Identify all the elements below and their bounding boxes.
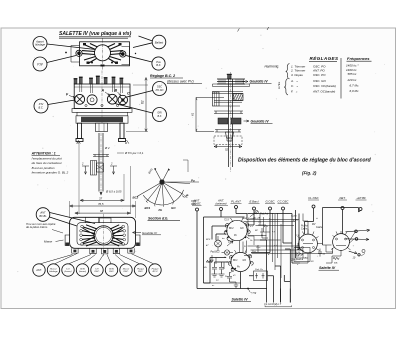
stray marks bbox=[238, 27, 269, 32]
tick B bbox=[77, 140, 81, 145]
svg-text:4LL 25: 4LL 25 bbox=[253, 217, 261, 220]
balloon OSC PO GO bbox=[153, 82, 167, 96]
label 1000 bbox=[228, 242, 234, 244]
shaft centre section bbox=[99, 133, 103, 196]
balloon Ballast bbox=[152, 35, 166, 49]
coil T2 terminal dots bbox=[230, 256, 252, 269]
wire left riser bbox=[204, 217, 211, 283]
res R2 bbox=[333, 257, 339, 264]
label Cadre bbox=[293, 219, 298, 222]
wire E.Barcl down bbox=[248, 210, 254, 225]
leader P IV to eyelet bbox=[47, 56, 76, 63]
top screw bbox=[227, 74, 232, 79]
svg-text:(dessus avec PV): (dessus avec PV) bbox=[167, 80, 194, 84]
coil T1 bbox=[224, 218, 250, 241]
bottom view inner shell bbox=[77, 223, 128, 245]
selector arc bbox=[143, 190, 183, 205]
svg-text:Goulotte IV: Goulotte IV bbox=[250, 80, 269, 84]
wire mid verticals bbox=[292, 210, 299, 263]
chassis flange bbox=[72, 109, 132, 116]
wire crosslinks bbox=[248, 220, 270, 245]
right lug column bbox=[122, 225, 126, 245]
svg-text:G.OSC: G.OSC bbox=[265, 200, 275, 204]
svg-text:(trame): (trame) bbox=[64, 270, 71, 273]
table row 2 bbox=[290, 68, 357, 73]
balloon ANT BC BL bbox=[36, 208, 50, 222]
wire tap down 1 bbox=[267, 289, 291, 303]
right eyelet bbox=[120, 51, 126, 57]
svg-text:A. »: A. » bbox=[290, 79, 298, 83]
svg-text:52: 52 bbox=[225, 148, 229, 152]
svg-text:OSC.: OSC. bbox=[138, 271, 144, 273]
label 6.5 mm bbox=[105, 190, 122, 194]
capacitor C2 bbox=[219, 262, 225, 277]
net mark 4L bbox=[186, 193, 189, 197]
brace trimmers bbox=[286, 64, 290, 79]
svg-text:OSC.: OSC. bbox=[109, 271, 115, 273]
resistor R3 bbox=[207, 260, 213, 262]
svg-text:Cadre: Cadre bbox=[316, 227, 323, 229]
plate centerlines bbox=[102, 39, 104, 71]
note trou bbox=[26, 222, 56, 229]
svg-text:Ø 2: Ø 2 bbox=[104, 146, 110, 150]
svg-text:68: 68 bbox=[100, 209, 104, 213]
wire padder bbox=[249, 276, 274, 289]
svg-text:61: 61 bbox=[191, 112, 195, 116]
svg-text:SALETTE IV (vue plaque à vis): SALETTE IV (vue plaque à vis) bbox=[59, 31, 132, 37]
svg-text:Ballast: Ballast bbox=[155, 40, 164, 44]
leader ANT BC BL bbox=[50, 213, 96, 227]
coil winding hatched bbox=[233, 94, 243, 101]
svg-text:OSC. OC(bande): OSC. OC(bande) bbox=[313, 84, 336, 88]
leader ballast to plate bbox=[133, 43, 152, 48]
left lug column bbox=[80, 225, 84, 245]
label section db bbox=[148, 217, 181, 221]
trimmer arrow T2a bbox=[230, 268, 236, 273]
wire bus y217 bbox=[204, 216, 245, 218]
scribble labels zone B bbox=[244, 218, 271, 256]
terminal +HT BF bbox=[356, 196, 367, 211]
trimmer A bbox=[101, 89, 118, 105]
dim 62 vertical bbox=[126, 78, 148, 132]
wire G.OSC down bbox=[251, 210, 270, 253]
terminal strip labels bbox=[264, 303, 282, 306]
svg-text:37: 37 bbox=[99, 196, 103, 200]
trimmer pot bbox=[226, 132, 234, 141]
fan labels bbox=[133, 167, 197, 212]
svg-text:BC2: BC2 bbox=[229, 228, 234, 230]
svg-text:BC: BC bbox=[255, 230, 258, 232]
fan wires right bbox=[108, 44, 124, 64]
svg-text:220 kc: 220 kc bbox=[347, 78, 357, 82]
right leg bbox=[119, 123, 126, 141]
wire T1 left taps bbox=[212, 226, 227, 240]
extra marks W1 bbox=[298, 229, 319, 238]
svg-text:Pu: Pu bbox=[191, 179, 195, 183]
wire risers mid bbox=[260, 240, 290, 303]
lines under coil bbox=[214, 101, 242, 107]
clamp bracket bbox=[91, 161, 104, 176]
wire bottom bus bbox=[197, 288, 267, 290]
table row 5 bbox=[291, 84, 359, 89]
left leg bbox=[76, 123, 83, 141]
dim 37 bbox=[80, 196, 124, 201]
svg-text:50t: 50t bbox=[204, 266, 207, 269]
svg-text:GO: GO bbox=[243, 260, 247, 262]
label 72.5 bbox=[224, 219, 229, 222]
vertical bus mid bbox=[273, 213, 282, 278]
label a l'Es rotated bbox=[277, 81, 281, 89]
collar plate bbox=[93, 155, 109, 157]
fig number bbox=[302, 171, 317, 176]
trimmer pad ant bbox=[250, 211, 269, 221]
label Po coil bbox=[234, 235, 238, 237]
base plate bbox=[215, 130, 241, 133]
svg-text:ANT.: ANT. bbox=[35, 269, 42, 272]
mid plate bbox=[212, 92, 243, 94]
svg-text:Fréquences: Fréquences bbox=[347, 56, 370, 61]
svg-text:Disposition des éléments de ré: Disposition des éléments de réglage du b… bbox=[238, 158, 372, 164]
terminal balloons row bbox=[33, 264, 161, 276]
trimmer C bbox=[115, 89, 131, 105]
svg-text:OSC. GO: OSC. GO bbox=[313, 79, 327, 83]
padder box bbox=[254, 269, 268, 281]
label GO coil bbox=[240, 228, 244, 230]
long link wires bbox=[204, 226, 333, 284]
table row 4 bbox=[290, 78, 357, 83]
title SALETTE IV (vue plaque a vis) bbox=[59, 31, 132, 38]
shaft bbox=[229, 79, 233, 167]
table row 6 bbox=[291, 89, 359, 94]
pointer line top bbox=[154, 168, 170, 170]
fan wires left bbox=[82, 44, 98, 64]
table header REGLAGES bbox=[309, 54, 339, 61]
label d2 bbox=[104, 146, 110, 150]
svg-text:CC.OSC: CC.OSC bbox=[278, 200, 290, 204]
wire bus to wafer bbox=[248, 214, 301, 264]
svg-text:Ant.t: Ant.t bbox=[295, 255, 301, 258]
tiny value labels bbox=[204, 262, 236, 283]
wire mesh B bbox=[244, 228, 281, 256]
goulotte label 1 bbox=[243, 80, 272, 84]
goulotte pointer bbox=[133, 231, 162, 235]
terminal DET bbox=[338, 196, 347, 210]
label Pu Ant bbox=[301, 225, 308, 231]
wafer W2 bbox=[331, 232, 351, 251]
svg-text:OSC.: OSC. bbox=[94, 271, 100, 273]
svg-text:6,9 Mc: 6,9 Mc bbox=[350, 89, 360, 93]
svg-text:B: B bbox=[77, 141, 79, 145]
chassis dark channel bbox=[76, 116, 128, 123]
svg-text:blindage: blindage bbox=[49, 271, 58, 273]
svg-text:+HT.BF: +HT.BF bbox=[356, 196, 366, 200]
balloon P IV bbox=[33, 57, 47, 71]
leader masse bbox=[56, 240, 64, 242]
svg-text:B.F.: B.F. bbox=[157, 115, 161, 118]
svg-text:1C: 1C bbox=[216, 280, 219, 282]
svg-text:3. Noyau: 3. Noyau bbox=[291, 73, 303, 77]
svg-text:DET.: DET. bbox=[339, 196, 345, 200]
wafer W1 bbox=[297, 232, 320, 253]
terminal CL.OSC bbox=[308, 196, 320, 208]
svg-text:GmB.A: GmB.A bbox=[296, 258, 304, 261]
fan wires right bbox=[110, 225, 123, 246]
svg-text:Po.t: Po.t bbox=[252, 250, 256, 253]
svg-text:B.F.: B.F. bbox=[156, 63, 161, 67]
balloon Pos BF bbox=[152, 57, 165, 70]
label osc sections bbox=[233, 260, 246, 269]
svg-text:Réglage B.C. 2: Réglage B.C. 2 bbox=[150, 74, 175, 78]
wire HT rail bbox=[323, 208, 361, 246]
svg-text:6,7 Mc: 6,7 Mc bbox=[350, 84, 360, 88]
note masse bbox=[44, 240, 53, 244]
capacitor C1 bbox=[212, 262, 218, 277]
cap C4 bbox=[296, 243, 300, 250]
svg-text:BC1: BC1 bbox=[233, 260, 238, 262]
balloon texts bbox=[35, 268, 159, 273]
wire DET drop bbox=[342, 210, 344, 234]
extra marks W2 bbox=[333, 231, 342, 237]
svg-text:fermeture grandes O. BL 2: fermeture grandes O. BL 2 bbox=[32, 171, 69, 175]
wire det coil link bbox=[326, 250, 341, 263]
selector rays bbox=[137, 170, 199, 204]
shaft centerline bbox=[230, 72, 232, 172]
wire wafer1 links bbox=[300, 244, 323, 264]
svg-text:GO: GO bbox=[171, 206, 176, 210]
ground sym G1 bbox=[234, 282, 238, 288]
arc ticks bbox=[146, 196, 184, 207]
terminal G.OSC bbox=[265, 200, 275, 211]
svg-text:BC1: BC1 bbox=[145, 206, 151, 210]
dim 61 vertical bbox=[191, 98, 225, 132]
svg-text:(trame): (trame) bbox=[79, 270, 86, 273]
leader Grille BF bbox=[115, 104, 153, 114]
bottom view centerline bbox=[103, 214, 105, 256]
table header Frequences bbox=[347, 56, 372, 61]
leader title to balloon Ballast bbox=[139, 36, 153, 41]
horizontal pair mid bbox=[244, 220, 300, 222]
svg-text:76,5: 76,5 bbox=[98, 202, 104, 206]
label Pad OSC bbox=[211, 252, 221, 254]
coil L2 bbox=[224, 250, 229, 255]
lower plate bbox=[214, 111, 243, 114]
balloon P IV BC bbox=[34, 99, 48, 113]
svg-text:Salette IV: Salette IV bbox=[319, 266, 336, 270]
svg-text:BC2: BC2 bbox=[133, 196, 139, 200]
svg-text:GO·BC: GO·BC bbox=[192, 202, 201, 206]
svg-text:Section d.b.: Section d.b. bbox=[148, 217, 168, 221]
svg-text:585 kc: 585 kc bbox=[348, 72, 357, 76]
left T dim bbox=[81, 162, 89, 175]
riser pair mid bbox=[260, 214, 264, 233]
dark block left bbox=[218, 118, 228, 124]
goulotte label 2 bbox=[244, 119, 273, 123]
tick D right bbox=[125, 140, 129, 145]
leader lines to feet bbox=[40, 254, 154, 265]
svg-text:Pad.Ant: Pad.Ant bbox=[260, 213, 269, 216]
wire caps top bbox=[210, 258, 228, 284]
wire T2 bottom bbox=[240, 272, 242, 289]
svg-text:GO: GO bbox=[240, 228, 244, 230]
label harmoniques bbox=[265, 65, 280, 69]
svg-text:Masse: Masse bbox=[44, 240, 53, 244]
label Salette IV left bbox=[231, 298, 251, 302]
svg-text:m.: m. bbox=[212, 285, 215, 287]
padder unit box bbox=[294, 248, 310, 262]
svg-text:C: C bbox=[127, 92, 130, 96]
svg-text:Gr: Gr bbox=[224, 257, 227, 259]
gang shaft risers bbox=[240, 241, 247, 254]
fan wires left bbox=[82, 225, 97, 246]
svg-text:P.IV: P.IV bbox=[37, 62, 43, 66]
label Exc bbox=[243, 217, 248, 220]
scribble labels zone A bbox=[206, 237, 228, 287]
balloon apport blindage bbox=[33, 37, 47, 51]
svg-text:Ø 6,5 ± 0,05: Ø 6,5 ± 0,05 bbox=[105, 190, 122, 194]
svg-text:BC.2: BC.2 bbox=[153, 271, 159, 273]
svg-text:Gr: Gr bbox=[250, 240, 253, 242]
svg-text:Po: Po bbox=[159, 208, 163, 212]
wire CL.OSC drop bbox=[305, 208, 314, 234]
dim 56.5 bbox=[70, 202, 136, 207]
wire stub links bbox=[206, 253, 233, 270]
svg-text:de la pièce interm.: de la pièce interm. bbox=[26, 225, 48, 229]
svg-text:à l'Es: à l'Es bbox=[277, 81, 281, 89]
selector hub bbox=[159, 179, 164, 184]
svg-text:B.C.: B.C. bbox=[38, 105, 43, 109]
label BC2 coil bbox=[229, 228, 234, 230]
rotor circle bbox=[94, 226, 113, 245]
svg-text:B est en position: B est en position bbox=[32, 166, 55, 170]
svg-text:tm: tm bbox=[222, 237, 225, 240]
balloon Grille BF bbox=[153, 108, 167, 122]
wire antenne down bbox=[220, 211, 222, 218]
svg-text:Harmoniq.: Harmoniq. bbox=[265, 65, 280, 69]
extension lines bbox=[70, 142, 136, 218]
top flange bbox=[213, 79, 250, 87]
svg-text:B: B bbox=[115, 89, 118, 93]
terminal CC.OSC bbox=[278, 200, 290, 211]
svg-text:72.5: 72.5 bbox=[224, 219, 229, 222]
capacitor C5 bbox=[227, 272, 236, 282]
table divider bbox=[340, 58, 342, 99]
padding coil L1 bbox=[215, 236, 222, 251]
stray dot bbox=[65, 52, 136, 55]
center boss bbox=[96, 123, 108, 131]
paper speckle bbox=[17, 33, 385, 295]
svg-text:MV: MV bbox=[312, 224, 316, 226]
label 8/5mm bbox=[117, 151, 144, 155]
trimmer F bbox=[66, 93, 85, 105]
svg-text:ANT. OC(bande): ANT. OC(bande) bbox=[312, 90, 335, 94]
svg-text:PL.ANT: PL.ANT bbox=[231, 200, 241, 204]
terminal ANT antenne bbox=[215, 199, 229, 211]
svg-text:Ø 8 h jeu = 0,1: Ø 8 h jeu = 0,1 bbox=[124, 151, 144, 155]
svg-text:C. »: C. » bbox=[291, 84, 299, 88]
svg-text:(Fig. 2): (Fig. 2) bbox=[302, 171, 317, 176]
resistor R1 detail bbox=[290, 253, 303, 262]
svg-text:OSC.: OSC. bbox=[123, 271, 129, 273]
label G circle bbox=[361, 249, 365, 256]
svg-text:a.t: a.t bbox=[274, 244, 277, 247]
svg-text:Cadre: Cadre bbox=[291, 216, 298, 218]
wire PL.ANT down bbox=[236, 209, 247, 221]
terminal ANT GO-BC bbox=[192, 199, 202, 212]
right T dim bbox=[110, 162, 117, 175]
corner ref line bbox=[183, 160, 188, 172]
coil T1 terminal dots bbox=[225, 224, 248, 238]
top tabs bbox=[86, 217, 112, 222]
svg-text:E.Barcl: E.Barcl bbox=[249, 200, 258, 204]
trimmer arrow T1a bbox=[227, 241, 233, 246]
svg-text:≈ mg: ≈ mg bbox=[251, 292, 257, 295]
svg-text:Salette IV: Salette IV bbox=[232, 298, 249, 302]
plate top view body bbox=[71, 42, 130, 66]
table row 1 bbox=[291, 64, 359, 69]
svg-text:BC.BL: BC.BL bbox=[39, 215, 47, 218]
svg-text:62: 62 bbox=[141, 100, 145, 104]
svg-text:Goulotte IV: Goulotte IV bbox=[251, 119, 270, 123]
note Reglage BC2 bbox=[150, 74, 202, 84]
table row 3 bbox=[291, 72, 357, 77]
brace noyaux bbox=[284, 79, 288, 95]
svg-text:tO: tO bbox=[233, 274, 236, 277]
left bracket bbox=[213, 92, 220, 106]
label MV cadre bbox=[312, 224, 323, 229]
label 7mg bbox=[248, 289, 257, 295]
leader Pos BF to eyelet bbox=[126, 56, 152, 63]
leader balloon apport to plate bbox=[47, 44, 96, 50]
plate rotor circle bbox=[95, 45, 111, 61]
leader PIV BC to trimmer F bbox=[48, 100, 75, 105]
svg-text:Goulotte IV: Goulotte IV bbox=[142, 231, 158, 235]
svg-text:ATTENTION : 1: ATTENTION : 1 bbox=[31, 152, 56, 156]
chassis centerline bbox=[101, 71, 103, 124]
terminal PL ANT bbox=[231, 200, 242, 209]
svg-text:l'emplacement du plot: l'emplacement du plot bbox=[32, 156, 62, 160]
leader OSC to trimmer C bbox=[127, 91, 153, 98]
terminal strip brace bbox=[265, 305, 292, 306]
switch arrow S1 bbox=[346, 229, 370, 232]
dark block right bbox=[231, 118, 241, 124]
svg-text:Pad.BC2: Pad.BC2 bbox=[211, 252, 221, 254]
small holes bottom row bbox=[85, 104, 119, 106]
dim 52 bbox=[214, 145, 242, 151]
svg-text:e.t: e.t bbox=[250, 225, 253, 228]
svg-text:RÉGLAGES: RÉGLAGES bbox=[310, 54, 340, 61]
chassis body bbox=[74, 84, 130, 109]
svg-text:(antenne): (antenne) bbox=[215, 202, 226, 206]
wire wafer2 to arrows bbox=[349, 232, 355, 244]
switch arrow S2 bbox=[346, 238, 370, 241]
left eyelet bbox=[76, 50, 82, 56]
wire CC.OSC down bbox=[283, 210, 292, 243]
label Salette IV right bbox=[319, 266, 340, 270]
svg-text:PO.GO: PO.GO bbox=[156, 89, 164, 92]
wire ANT GO-BC down bbox=[196, 211, 198, 289]
plate screws bbox=[83, 43, 122, 67]
svg-text:de l'axe du contacteur: de l'axe du contacteur bbox=[32, 161, 63, 165]
svg-text:OSC. PO: OSC. PO bbox=[313, 73, 326, 77]
core B circle bbox=[87, 95, 97, 105]
svg-text:Pad. Po: Pad. Po bbox=[255, 269, 264, 271]
svg-text:F. »: F. » bbox=[291, 90, 298, 94]
chassis top screws bbox=[74, 76, 124, 84]
inner posts bbox=[80, 84, 123, 93]
leader trou bbox=[52, 230, 63, 234]
svg-text:CL.OSC: CL.OSC bbox=[308, 196, 319, 200]
left side tab bbox=[65, 235, 70, 246]
